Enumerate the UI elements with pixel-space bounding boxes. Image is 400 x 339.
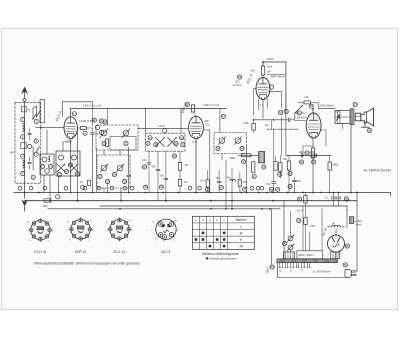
variable capacitor C7 [101, 165, 107, 171]
IF transformer 1 box (dashed) [96, 125, 138, 150]
node 240V [263, 61, 286, 63]
component refs row [18, 186, 22, 190]
resistor R6 [178, 179, 181, 186]
socket view AZ11 [156, 219, 176, 239]
svg-text:g₁: g₁ [67, 221, 69, 223]
wire anode V1 [70, 108, 72, 116]
ref 40 [242, 160, 246, 164]
wire 240V feed [285, 62, 287, 109]
ref 20a [95, 125, 99, 129]
socket view ECH11 [31, 220, 50, 239]
wire bus end tick [390, 193, 392, 197]
capacitor C3 [28, 132, 31, 134]
tube V2 EBF11 [189, 116, 204, 138]
resistor R80 80ohm [44, 199, 51, 202]
svg-text:HF: HF [305, 95, 309, 99]
node 130V rail [71, 107, 226, 109]
bus junction dots [24, 192, 26, 194]
svg-text:4mA: 4mA [356, 223, 362, 227]
capacitor C11 [156, 168, 160, 170]
switch S1b [37, 111, 40, 116]
svg-text:f₂: f₂ [69, 239, 71, 241]
bus line 4 [48, 208, 280, 210]
iron core choke [349, 217, 353, 224]
svg-text:AZ 11: AZ 11 [160, 250, 170, 254]
wire HV center [302, 206, 304, 251]
wire IF2 feed [219, 108, 221, 132]
svg-text:600Ω: 600Ω [230, 157, 236, 160]
svg-text:−16 V: −16 V [295, 208, 304, 212]
wire screen V4 [321, 129, 326, 131]
wire [246, 146, 248, 193]
svg-text:240V~: 240V~ [266, 266, 269, 275]
svg-text:50n: 50n [160, 175, 165, 178]
svg-text:+: + [346, 209, 348, 213]
wire [285, 62, 287, 120]
svg-text:20n: 20n [199, 179, 205, 182]
wire [107, 183, 109, 193]
switch S2a [57, 164, 65, 172]
svg-text:80Ω: 80Ω [43, 205, 48, 208]
resistor R2 [81, 127, 87, 130]
ref 43 [219, 186, 223, 190]
wire [290, 232, 292, 236]
ground arrow E1 [24, 193, 26, 199]
ref 31 [181, 143, 185, 147]
band switch body [40, 100, 45, 123]
table contact dots [202, 231, 205, 234]
resistor R11 [238, 180, 241, 186]
bus line 2 [25, 200, 357, 202]
ref 45 [243, 187, 247, 191]
bus line 3 [100, 205, 347, 207]
ref 50 [279, 110, 283, 114]
svg-text:10n: 10n [142, 159, 147, 162]
coil L2 [23, 160, 24, 163]
wire [145, 108, 147, 133]
capacitor C18 [300, 154, 302, 158]
resistor R22 [304, 218, 307, 225]
wire speaker return [350, 125, 352, 193]
ref 36 [185, 102, 189, 106]
svg-text:Kontakt geschlossen: Kontakt geschlossen [209, 257, 237, 261]
coil L11 [230, 180, 233, 181]
wire [335, 230, 337, 235]
ref 24 [112, 172, 116, 176]
wire [271, 121, 273, 129]
ref 23 [105, 179, 109, 183]
svg-text:40n: 40n [152, 165, 157, 168]
svg-text:AF: AF [9, 151, 14, 155]
node AF line [286, 155, 331, 157]
ref 20 [102, 141, 106, 145]
svg-text:−2V: −2V [79, 181, 84, 184]
svg-text:1MΩ: 1MΩ [310, 151, 315, 154]
ref 62 [297, 218, 301, 222]
ref 29 [174, 141, 178, 145]
tone capacitor C17 [337, 114, 340, 120]
svg-text:f₂: f₂ [108, 239, 110, 241]
capacitor C19 [293, 179, 297, 181]
svg-text:1M: 1M [184, 181, 187, 184]
ref 67 [56, 195, 60, 199]
coil L7 [123, 130, 129, 136]
power transformer heater winding [331, 252, 340, 259]
ref 69 [297, 111, 301, 115]
svg-text:2W: 2W [250, 69, 255, 73]
power transformer primary winding [283, 252, 294, 259]
wire [312, 109, 314, 113]
resistor R20 [328, 162, 331, 170]
coil L8 [163, 128, 167, 132]
ref 55 [367, 128, 371, 132]
svg-text:130 V 3,1 mA: 130 V 3,1 mA [83, 104, 102, 108]
ref 14 [48, 164, 52, 168]
ref 60 [297, 197, 301, 201]
capacitor C2 [21, 143, 26, 149]
node det out [254, 119, 288, 121]
output transformer T2 [335, 111, 350, 124]
svg-text:2x 350V 60mA: 2x 350V 60mA [312, 270, 331, 274]
svg-text:1,4kV: 1,4kV [355, 219, 362, 223]
ref 4 [21, 171, 25, 175]
ref 47 [276, 187, 280, 191]
ref 54 [353, 103, 357, 107]
coil L5 [59, 155, 64, 160]
ref 59 [288, 184, 292, 188]
anode resistor R7 [191, 105, 194, 112]
ref 1 [21, 118, 25, 122]
ref 68 [269, 85, 273, 89]
svg-text:245V 30mA: 245V 30mA [319, 104, 334, 108]
coil L6 [101, 130, 107, 136]
ref 7 [34, 152, 38, 156]
ref 52 [309, 104, 313, 108]
capacitor C13 [217, 180, 221, 182]
svg-text:1M: 1M [185, 164, 188, 167]
mech coupling (dash-dot) [267, 128, 298, 130]
ref 19 [75, 172, 79, 176]
resistor R10 [206, 180, 209, 187]
svg-text:0,1M 47nF: 0,1M 47nF [295, 117, 307, 120]
osc bandswitch box (dashed) [146, 133, 185, 151]
ref 10 [92, 118, 96, 122]
IF1 inner box [110, 137, 136, 151]
trimmer C22 [288, 245, 293, 250]
wire cathode V3 [258, 99, 260, 110]
resistor R21 [304, 196, 307, 204]
ref 22 [98, 174, 102, 178]
resistor R13 [274, 162, 277, 171]
ref 8 [31, 175, 35, 179]
ref 51 [284, 109, 288, 113]
wire [231, 168, 233, 209]
caption Kontakt geschlossen [206, 257, 208, 259]
ref 49 [237, 75, 241, 79]
ref 5 [34, 119, 38, 123]
wave switch table [192, 216, 254, 249]
svg-text:(Röhren und Fassungen von unte: (Röhren und Fassungen von unten gesehen) [76, 261, 139, 265]
ref 9 [83, 131, 87, 135]
AF choke [259, 152, 265, 163]
ref 46 [269, 187, 273, 191]
ref 33 [144, 185, 148, 189]
node det line [238, 154, 259, 156]
svg-text:L: L [240, 225, 242, 229]
wire [346, 206, 348, 228]
wire grid V4 [294, 113, 296, 120]
resistor R19 [287, 161, 290, 170]
coil L1 [23, 124, 24, 127]
mains plug [345, 270, 351, 278]
ref 34 [159, 185, 163, 189]
resistor R4a [106, 139, 109, 147]
svg-text:EBF 11: EBF 11 [75, 250, 87, 254]
svg-text:4 7 1: 4 7 1 [192, 141, 198, 144]
capacitor C5 [91, 132, 95, 134]
capacitor C10 [147, 162, 151, 164]
socket view EBF11 [71, 220, 90, 239]
wire [46, 130, 48, 154]
svg-text:6 7 1: 6 7 1 [67, 140, 73, 143]
svg-text:a₁: a₁ [176, 220, 178, 222]
capacitor C1 [22, 106, 27, 112]
wire [103, 150, 105, 155]
ref 57 [312, 160, 316, 164]
resistor R8 [242, 154, 252, 157]
svg-text:f₂: f₂ [29, 240, 31, 242]
ref 16 [64, 169, 68, 173]
svg-text:Q=5mA: Q=5mA [233, 84, 242, 87]
wire [32, 108, 34, 119]
capacitor C12 [164, 177, 168, 179]
ref 27 [146, 141, 150, 145]
switch S3a [156, 138, 165, 147]
ref 53 [305, 151, 309, 155]
volume pot P1 [295, 106, 303, 114]
resistor R9 [252, 162, 255, 173]
resistor R16 [304, 101, 311, 104]
svg-text:1W: 1W [267, 70, 271, 74]
bus line 1 chassis [14, 192, 391, 194]
cathode resistor R17 [311, 148, 314, 158]
wire [107, 108, 109, 125]
ref 25 [122, 179, 126, 183]
node 245V [318, 108, 335, 110]
svg-text:1,5k: 1,5k [205, 123, 210, 126]
ref 15 [57, 172, 61, 176]
ref 18 [68, 163, 72, 167]
svg-text:100: 100 [216, 177, 221, 180]
svg-text:f₂: f₂ [155, 239, 157, 241]
svg-text:ECH 11: ECH 11 [34, 250, 46, 254]
resistor R3a [88, 180, 91, 185]
svg-text:a₁: a₁ [50, 221, 52, 223]
svg-text:240V: 240V [266, 57, 275, 61]
ref 39 [240, 146, 244, 150]
power transformer core [277, 259, 338, 263]
wire [77, 128, 79, 201]
bus junction dots line2 [49, 200, 51, 202]
capacitor C9 [127, 174, 131, 176]
ref 66 [282, 241, 286, 245]
svg-text:500: 500 [297, 180, 302, 183]
ref 44 [205, 188, 209, 192]
tube V4 ECL11 pentode [306, 113, 321, 138]
ref 37 [221, 114, 225, 118]
svg-text:Bereich: Bereich [236, 218, 247, 222]
wire screen V2 [203, 129, 209, 131]
ref 6 [34, 139, 38, 143]
wire [302, 146, 304, 156]
ref 38 [216, 146, 220, 150]
resistor R5 [178, 162, 181, 170]
svg-text:g₁: g₁ [153, 221, 155, 223]
tube V3 ECL11 triode [256, 78, 270, 100]
trimmer C21 [288, 236, 293, 241]
IF transformer 2 box (dashed) [214, 133, 247, 154]
ref 28 [154, 143, 158, 147]
oscillator coil box 1 [40, 154, 54, 175]
electrolytic C20 2x50uF [333, 193, 335, 197]
capacitor C15 [288, 118, 290, 121]
bus junction dots line4 [119, 208, 121, 210]
capacitor C4 [28, 161, 31, 163]
coil L9 [219, 138, 225, 144]
wire plate V3 [267, 74, 286, 76]
capacitor C14 [272, 181, 276, 183]
wire [321, 209, 323, 251]
ref 56 [299, 160, 303, 164]
wire [342, 124, 344, 130]
resistor R14 [261, 66, 264, 75]
svg-text:a₁: a₁ [129, 220, 131, 222]
ref 20b [99, 130, 103, 134]
ref 26 [148, 136, 152, 140]
svg-text:240V 48mA: 240V 48mA [270, 75, 285, 79]
antenna A1 [21, 87, 28, 94]
rectifier V5 AZ11 [328, 235, 345, 252]
grid resistor R15 [252, 124, 255, 131]
svg-text:130 V 2 mA: 130 V 2 mA [203, 103, 219, 107]
transformer taps [279, 263, 281, 267]
wire mains [270, 209, 272, 264]
svg-text:14,96: 14,96 [159, 125, 166, 128]
svg-text:TA: TA [239, 245, 243, 249]
svg-text:g₁: g₁ [27, 222, 29, 224]
svg-text:400V~ 500V~: 400V~ 500V~ [298, 253, 314, 257]
switch S1a [33, 114, 36, 119]
oscillator coil box 2 [56, 151, 80, 176]
svg-text:−16V: −16V [309, 224, 316, 228]
svg-text:M: M [240, 231, 243, 235]
ref 58 [288, 171, 292, 175]
ref 3 [21, 154, 25, 158]
coil L12 [332, 225, 335, 226]
switch S3b [168, 138, 177, 147]
svg-text:40n: 40n [227, 177, 232, 180]
svg-text:OLYMPIA 502W: OLYMPIA 502W [364, 168, 392, 172]
wire cathode V1 [70, 138, 72, 192]
wire [32, 146, 34, 170]
wire grid V3 [254, 88, 256, 90]
svg-text:100: 100 [299, 151, 304, 154]
wire grid V1 [36, 127, 64, 129]
svg-text:Wellenschalterdiagramm: Wellenschalterdiagramm [202, 252, 239, 256]
wire cathode V2 [195, 139, 197, 193]
svg-text:a₁: a₁ [90, 220, 92, 222]
variable capacitor C8 [117, 165, 123, 171]
svg-text:5mA: 5mA [267, 65, 273, 69]
ref 2 [21, 135, 25, 139]
ref 64 [270, 265, 274, 269]
tube V1 ECH11 [64, 117, 77, 139]
ref 32 [142, 165, 146, 169]
svg-text:Röhrenaufsichtsschaltbilder: Röhrenaufsichtsschaltbilder [34, 261, 75, 265]
resistor R12 [279, 163, 282, 172]
ref 42 [262, 165, 266, 169]
antenna filter box (dashed) [15, 102, 41, 183]
switch S1c [36, 147, 39, 152]
svg-text:25V: 25V [234, 80, 240, 84]
svg-text:50kΩ: 50kΩ [333, 164, 339, 167]
svg-text:1,25k: 1,25k [243, 122, 250, 125]
coil L3 [42, 157, 47, 162]
resistor R18 [311, 154, 317, 157]
band filter box (dashed) [97, 155, 130, 188]
wire cathode V4 [312, 138, 314, 148]
svg-text:g₁: g₁ [106, 221, 108, 223]
wire [221, 154, 223, 161]
ref 17 [72, 112, 76, 116]
ref 11 [99, 119, 103, 123]
coil L10 [235, 138, 241, 144]
mains cord [277, 263, 279, 278]
svg-text:70n: 70n [266, 183, 271, 186]
ref 8b [81, 185, 85, 189]
socket view ECL11 [110, 220, 129, 239]
ref 65 [343, 263, 347, 267]
ref 30 [180, 136, 184, 140]
svg-text:ECL 11: ECL 11 [114, 250, 126, 254]
wire osc anode [63, 101, 93, 103]
coil L4 [45, 169, 50, 174]
ref 12 [103, 120, 107, 124]
ref 8a [27, 144, 31, 148]
ref 35 [172, 154, 176, 158]
ref 13 [40, 164, 44, 168]
ref 63 [345, 244, 349, 248]
power transformer HV winding [297, 251, 323, 259]
ref 61 [344, 197, 348, 201]
ref 21 [124, 141, 128, 145]
